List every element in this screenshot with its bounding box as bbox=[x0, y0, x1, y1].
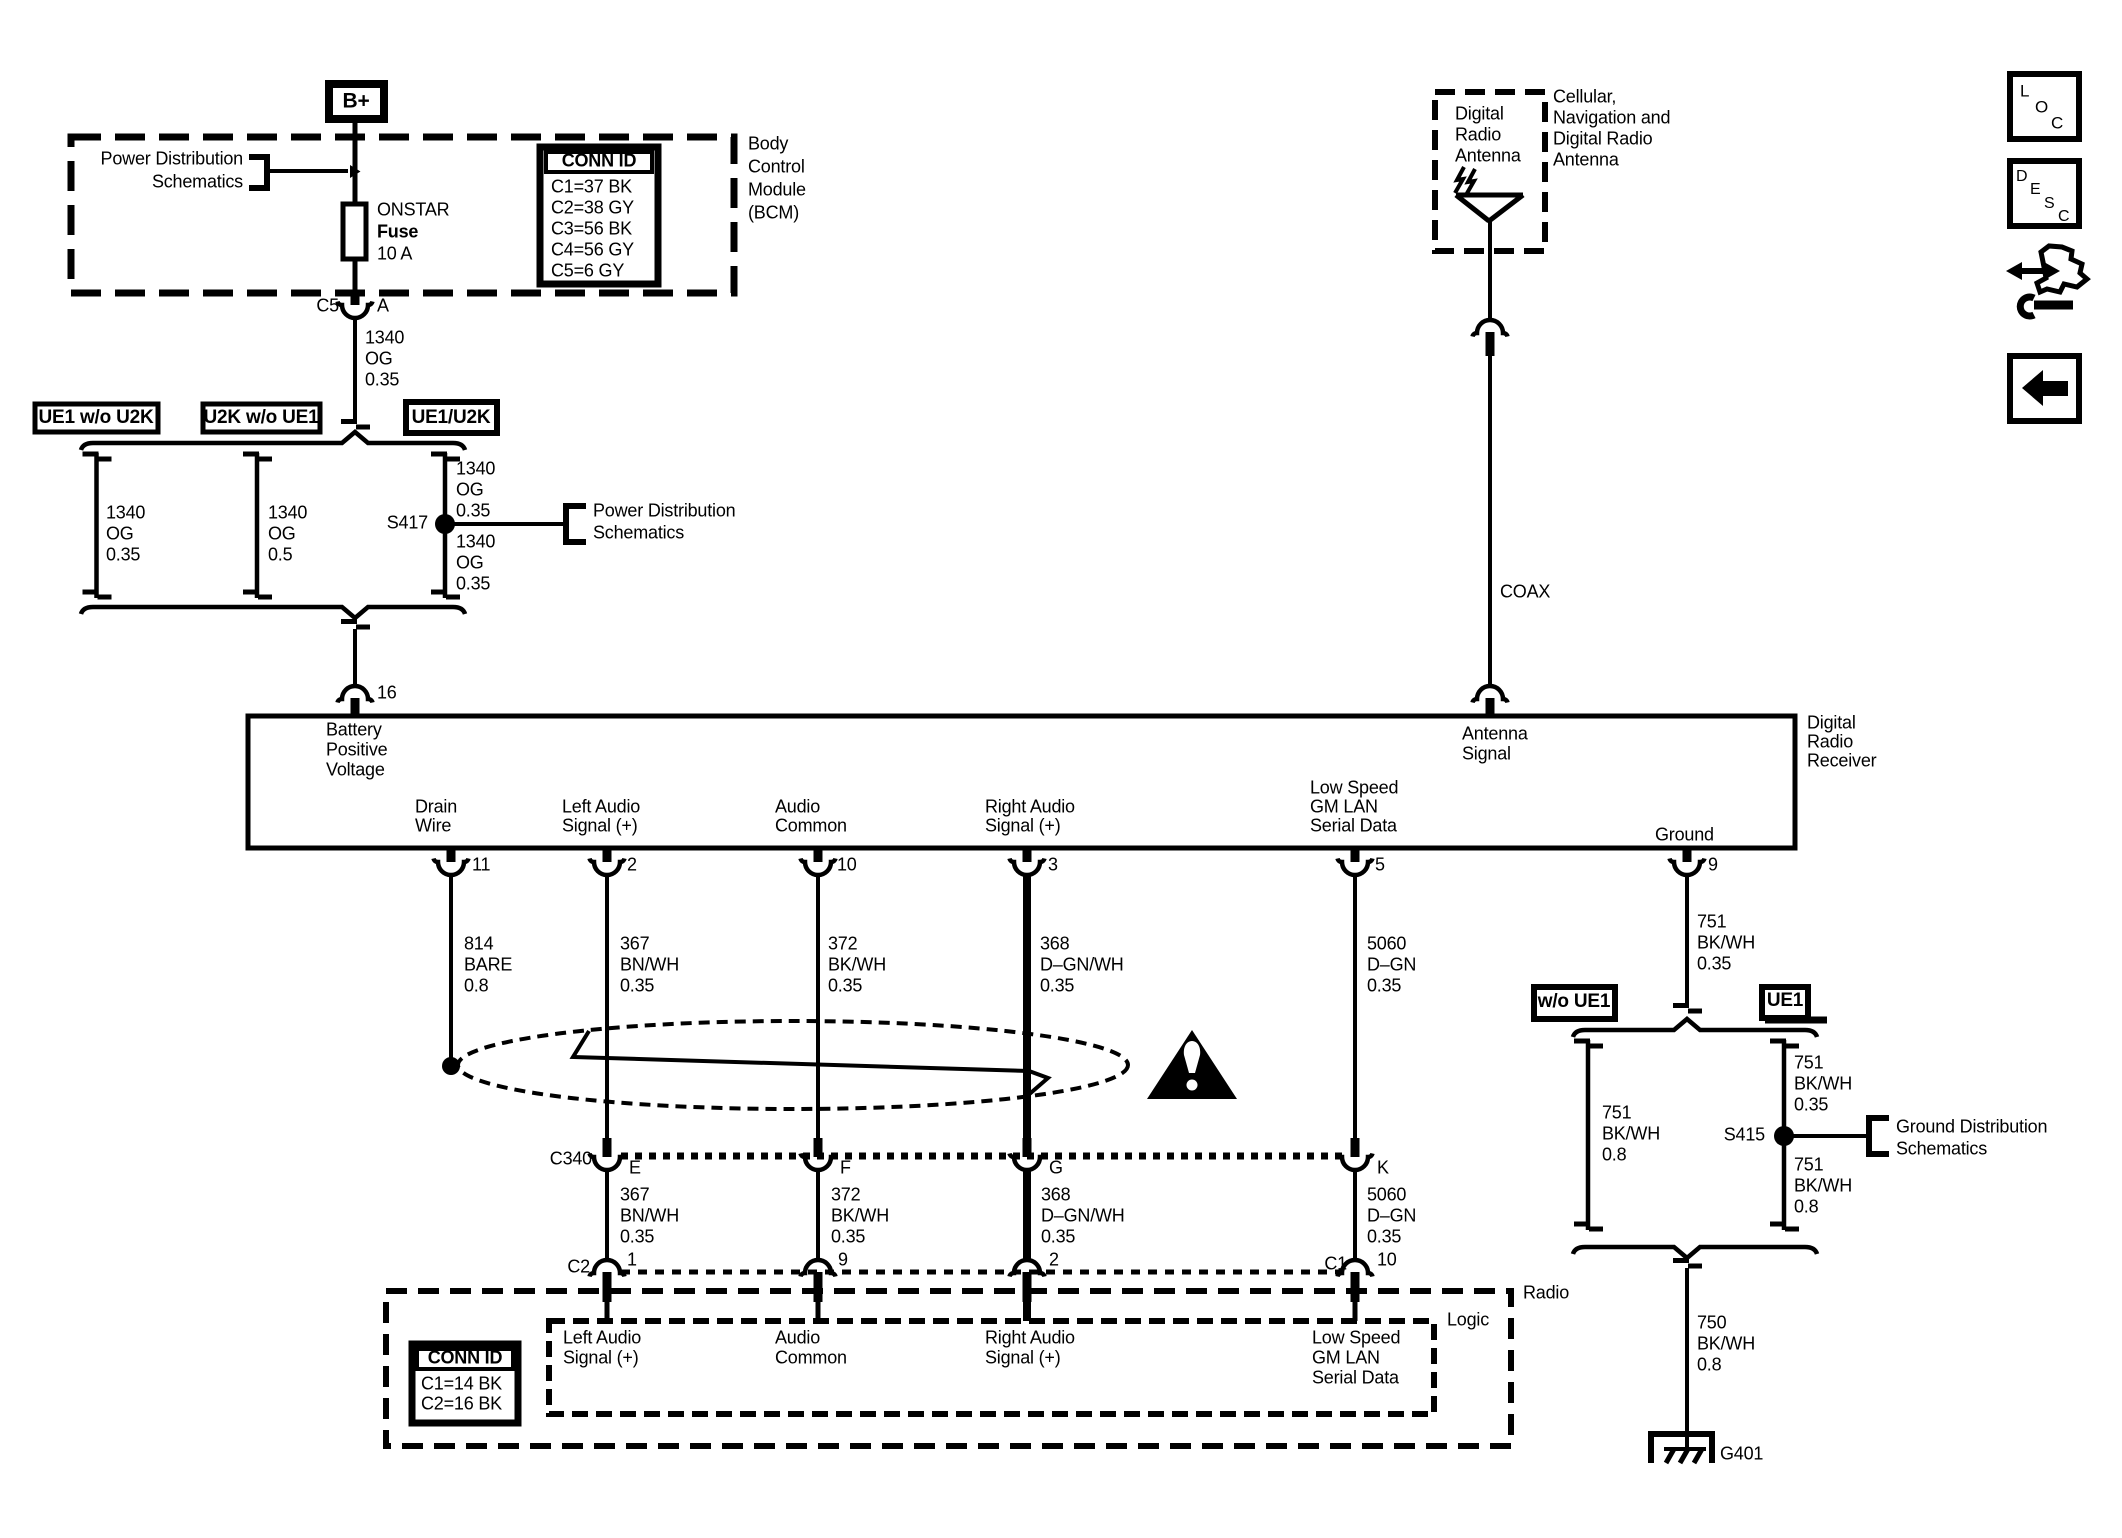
svg-text:Audio: Audio bbox=[775, 796, 820, 816]
svg-text:C2: C2 bbox=[567, 1256, 590, 1276]
svg-text:0.35: 0.35 bbox=[620, 1226, 654, 1246]
svg-text:3: 3 bbox=[1048, 854, 1058, 874]
wire break below option brace bbox=[341, 622, 370, 628]
wire drain 814 BARE bbox=[449, 875, 453, 1060]
connector row C340 dotted line bbox=[621, 1153, 1342, 1160]
wire into radio logic 2 bbox=[1023, 1302, 1031, 1321]
svg-text:D–GN: D–GN bbox=[1367, 1205, 1416, 1225]
svg-text:5060: 5060 bbox=[1367, 1184, 1406, 1204]
branch U2K w/o UE1 wire bbox=[255, 453, 260, 598]
icon back arrow bbox=[2022, 370, 2068, 406]
wire 367 BN/WH lower bbox=[605, 1170, 609, 1260]
Digital Radio Receiver box bbox=[248, 716, 1795, 848]
option box UE1/U2K bbox=[406, 402, 497, 433]
svg-text:Antenna: Antenna bbox=[1462, 723, 1529, 743]
svg-text:w/o UE1: w/o UE1 bbox=[1537, 991, 1611, 1012]
svg-text:0.35: 0.35 bbox=[1367, 975, 1401, 995]
svg-text:Serial Data: Serial Data bbox=[1312, 1367, 1400, 1387]
svg-text:Drain: Drain bbox=[415, 796, 457, 816]
antenna wave marks bbox=[1455, 167, 1475, 195]
option box UE1 bbox=[1762, 987, 1808, 1018]
pin stub radio 2 bbox=[1023, 1272, 1032, 1302]
svg-text:K: K bbox=[1377, 1157, 1389, 1177]
connector pin 10 bbox=[801, 859, 836, 876]
svg-text:16: 16 bbox=[377, 682, 397, 702]
icon vehicle with arrow and wrench bbox=[2037, 246, 2087, 292]
svg-text:D–GN/WH: D–GN/WH bbox=[1040, 954, 1124, 974]
svg-text:Signal (+): Signal (+) bbox=[985, 815, 1061, 835]
svg-text:CONN ID: CONN ID bbox=[562, 150, 637, 170]
wire 367 BN/WH upper bbox=[605, 875, 609, 1144]
connector pin 2 bbox=[590, 859, 625, 876]
splice S417 bbox=[435, 514, 455, 534]
pin stub coax bbox=[1486, 332, 1495, 356]
svg-text:OG: OG bbox=[268, 523, 296, 543]
svg-text:Battery: Battery bbox=[326, 719, 382, 739]
svg-text:Right Audio: Right Audio bbox=[985, 1327, 1075, 1347]
svg-text:Schematics: Schematics bbox=[593, 522, 684, 542]
svg-text:S: S bbox=[2044, 195, 2054, 212]
connector radio pin 9 bbox=[801, 1260, 836, 1277]
svg-text:2: 2 bbox=[1049, 1249, 1059, 1269]
svg-text:367: 367 bbox=[620, 1184, 650, 1204]
svg-text:9: 9 bbox=[1708, 854, 1718, 874]
option box UE1 w/o U2K bbox=[35, 404, 158, 432]
svg-text:10 A: 10 A bbox=[377, 243, 412, 263]
wire brace to pin 16 bbox=[353, 629, 357, 686]
svg-text:751: 751 bbox=[1794, 1154, 1824, 1174]
Logic dashed box bbox=[549, 1321, 1434, 1414]
wire break above option brace bbox=[341, 422, 370, 428]
pin stub radio 10 bbox=[1351, 1272, 1360, 1302]
connector C340 pin K bbox=[1338, 1154, 1373, 1171]
svg-text:Signal (+): Signal (+) bbox=[562, 815, 638, 835]
svg-text:1340: 1340 bbox=[106, 502, 145, 522]
wire break above ground brace bbox=[1673, 1006, 1702, 1012]
svg-text:CONN ID: CONN ID bbox=[428, 1347, 503, 1367]
svg-text:C340: C340 bbox=[550, 1148, 592, 1168]
ground option brace bottom bbox=[1573, 1247, 1817, 1258]
wire fuse to C5 bbox=[353, 259, 358, 293]
svg-text:11: 11 bbox=[472, 854, 490, 874]
svg-text:UE1/U2K: UE1/U2K bbox=[412, 407, 491, 428]
wire B+ to fuse bbox=[353, 123, 358, 204]
connector pin 5 bbox=[1338, 859, 1373, 876]
wire antenna mast bbox=[1488, 221, 1492, 319]
connector C340 pin F bbox=[801, 1154, 836, 1171]
CONN ID table (BCM) bbox=[540, 147, 658, 284]
svg-text:Radio: Radio bbox=[1455, 124, 1501, 144]
svg-text:10: 10 bbox=[837, 854, 857, 874]
option box UE1 shadow bbox=[1765, 1017, 1827, 1024]
svg-text:0.35: 0.35 bbox=[365, 369, 399, 389]
svg-text:368: 368 bbox=[1041, 1184, 1071, 1204]
svg-text:Antenna: Antenna bbox=[1553, 149, 1620, 169]
svg-text:0.35: 0.35 bbox=[1697, 953, 1731, 973]
svg-text:GM LAN: GM LAN bbox=[1310, 796, 1378, 816]
node drain wire termination dot bbox=[442, 1057, 460, 1075]
svg-text:C5=6 GY: C5=6 GY bbox=[551, 260, 624, 280]
svg-text:E: E bbox=[629, 1157, 641, 1177]
svg-text:Digital Radio: Digital Radio bbox=[1553, 128, 1653, 148]
svg-text:Control: Control bbox=[748, 156, 805, 176]
connector pin 11 bbox=[434, 859, 469, 876]
svg-text:C2=38 GY: C2=38 GY bbox=[551, 197, 634, 217]
svg-text:U2K w/o UE1: U2K w/o UE1 bbox=[204, 407, 320, 428]
pin stub 16 bbox=[351, 698, 360, 718]
svg-text:BN/WH: BN/WH bbox=[620, 954, 679, 974]
connector pin 9 bbox=[1670, 859, 1705, 876]
connector radio pin 2 bbox=[1010, 1260, 1045, 1277]
icon box LOC bbox=[2010, 74, 2079, 139]
svg-text:L: L bbox=[2020, 82, 2029, 101]
svg-text:2: 2 bbox=[627, 854, 637, 874]
wire into radio logic 9 bbox=[816, 1302, 821, 1321]
svg-text:C: C bbox=[2051, 114, 2063, 133]
branch UE1 w/o U2K wire bbox=[94, 453, 99, 598]
connector antenna signal pin bbox=[1473, 686, 1508, 703]
svg-text:0.35: 0.35 bbox=[828, 975, 862, 995]
svg-text:Power Distribution: Power Distribution bbox=[593, 500, 735, 520]
svg-text:751: 751 bbox=[1794, 1052, 1824, 1072]
pin stub C340 F bbox=[814, 1138, 823, 1157]
svg-text:Low Speed: Low Speed bbox=[1310, 777, 1398, 797]
pin stub antenna signal bbox=[1486, 698, 1495, 718]
wire S415 to ground distribution bbox=[1784, 1134, 1869, 1138]
svg-text:0.35: 0.35 bbox=[831, 1226, 865, 1246]
wire COAX bbox=[1488, 356, 1492, 686]
connector pin 16 bbox=[338, 686, 373, 703]
pin stub 10 bbox=[814, 848, 823, 862]
svg-text:0.8: 0.8 bbox=[1697, 1354, 1722, 1374]
svg-text:0.35: 0.35 bbox=[1794, 1094, 1828, 1114]
pin stub radio 9 bbox=[814, 1272, 823, 1302]
svg-text:Radio: Radio bbox=[1523, 1282, 1569, 1302]
branch ground UE1 bbox=[1782, 1040, 1787, 1230]
svg-text:Power Distribution: Power Distribution bbox=[101, 148, 243, 168]
node B+ power symbol box bbox=[329, 84, 384, 119]
svg-text:OG: OG bbox=[365, 348, 393, 368]
svg-text:Signal (+): Signal (+) bbox=[563, 1347, 639, 1367]
Digital Radio Antenna dashed box bbox=[1435, 92, 1545, 251]
Radio dashed box bbox=[386, 1291, 1511, 1446]
pin stub C5 bbox=[351, 293, 360, 305]
svg-text:1340: 1340 bbox=[268, 502, 307, 522]
svg-text:OG: OG bbox=[456, 479, 484, 499]
svg-text:BK/WH: BK/WH bbox=[828, 954, 886, 974]
wire into radio logic 1 bbox=[605, 1302, 610, 1321]
svg-text:Radio: Radio bbox=[1807, 731, 1853, 751]
svg-text:1340: 1340 bbox=[456, 458, 495, 478]
svg-text:Ground Distribution: Ground Distribution bbox=[1896, 1116, 2047, 1136]
svg-text:E: E bbox=[2030, 181, 2040, 198]
svg-text:C5: C5 bbox=[316, 295, 339, 315]
svg-text:372: 372 bbox=[828, 933, 858, 953]
wire power distribution to B+ feed bbox=[267, 169, 348, 173]
wire 750 BK/WH bbox=[1685, 1268, 1689, 1449]
svg-text:Module: Module bbox=[748, 179, 806, 199]
svg-text:Left Audio: Left Audio bbox=[563, 1327, 641, 1347]
svg-text:5: 5 bbox=[1375, 854, 1385, 874]
wire 5060 D-GN upper bbox=[1353, 875, 1357, 1144]
svg-text:UE1 w/o U2K: UE1 w/o U2K bbox=[39, 407, 154, 428]
svg-text:Low Speed: Low Speed bbox=[1312, 1327, 1400, 1347]
pin stub C340 G bbox=[1023, 1138, 1032, 1157]
svg-text:Navigation and: Navigation and bbox=[1553, 107, 1670, 127]
svg-text:GM LAN: GM LAN bbox=[1312, 1347, 1380, 1367]
svg-text:C1=14 BK: C1=14 BK bbox=[421, 1373, 502, 1393]
svg-text:Ground: Ground bbox=[1655, 824, 1714, 844]
svg-text:Digital: Digital bbox=[1807, 712, 1856, 732]
svg-text:Body: Body bbox=[748, 133, 788, 153]
wire 1340 OG bbox=[353, 318, 357, 421]
lightning bolt through shield bbox=[573, 1031, 1048, 1097]
svg-text:C1=37 BK: C1=37 BK bbox=[551, 176, 632, 196]
svg-text:A: A bbox=[377, 295, 389, 315]
svg-text:Antenna: Antenna bbox=[1455, 145, 1522, 165]
pin stub 11 bbox=[447, 848, 456, 862]
svg-text:OG: OG bbox=[106, 523, 134, 543]
svg-text:751: 751 bbox=[1602, 1102, 1632, 1122]
svg-text:G: G bbox=[1049, 1157, 1063, 1177]
branch ground w/o UE1 bbox=[1586, 1040, 1591, 1230]
connector coax inline bbox=[1473, 320, 1508, 337]
svg-text:1340: 1340 bbox=[456, 531, 495, 551]
branch UE1/U2K wire bbox=[443, 453, 448, 598]
bracket power distribution bbox=[249, 157, 267, 188]
connector radio pin 10 bbox=[1338, 1260, 1373, 1277]
svg-text:9: 9 bbox=[838, 1249, 848, 1269]
svg-text:814: 814 bbox=[464, 933, 494, 953]
icon box back arrow bbox=[2010, 356, 2079, 421]
connector C340 pin E bbox=[590, 1154, 625, 1171]
splice S415 bbox=[1774, 1126, 1794, 1146]
fuse ONSTAR 10A bbox=[343, 204, 366, 259]
svg-text:0.35: 0.35 bbox=[1041, 1226, 1075, 1246]
connector C5 terminal A bbox=[338, 302, 373, 319]
svg-text:Schematics: Schematics bbox=[1896, 1138, 1987, 1158]
svg-text:O: O bbox=[2035, 98, 2048, 117]
shield ellipse (drain wire) bbox=[458, 1021, 1128, 1109]
Body Control Module (BCM) dashed box bbox=[71, 137, 734, 293]
antenna symbol bbox=[1456, 195, 1523, 221]
svg-text:BK/WH: BK/WH bbox=[1697, 1333, 1755, 1353]
icon box DESC bbox=[2010, 161, 2079, 226]
pin stub 3 bbox=[1023, 848, 1032, 862]
pin stub 2 bbox=[603, 848, 612, 862]
option box w/o UE1 bbox=[1534, 987, 1615, 1019]
svg-text:0.35: 0.35 bbox=[456, 500, 490, 520]
svg-text:F: F bbox=[840, 1157, 851, 1177]
ground option brace top bbox=[1573, 1019, 1817, 1037]
svg-text:0.35: 0.35 bbox=[1040, 975, 1074, 995]
svg-text:Common: Common bbox=[775, 1347, 847, 1367]
svg-text:BK/WH: BK/WH bbox=[1697, 932, 1755, 952]
svg-text:BK/WH: BK/WH bbox=[1794, 1175, 1852, 1195]
svg-text:Left Audio: Left Audio bbox=[562, 796, 640, 816]
option brace bottom bbox=[81, 607, 465, 618]
svg-text:372: 372 bbox=[831, 1184, 861, 1204]
svg-text:COAX: COAX bbox=[1500, 581, 1550, 601]
svg-text:0.5: 0.5 bbox=[268, 544, 293, 564]
wire 368 D-GN/WH lower bbox=[1023, 1170, 1031, 1260]
svg-text:Receiver: Receiver bbox=[1807, 750, 1877, 770]
svg-text:C2=16 BK: C2=16 BK bbox=[421, 1393, 502, 1413]
wire 5060 D-GN lower bbox=[1353, 1170, 1357, 1260]
svg-text:BK/WH: BK/WH bbox=[1602, 1123, 1660, 1143]
svg-text:Wire: Wire bbox=[415, 815, 451, 835]
svg-text:10: 10 bbox=[1377, 1249, 1397, 1269]
svg-text:0.8: 0.8 bbox=[1602, 1144, 1627, 1164]
svg-text:Right Audio: Right Audio bbox=[985, 796, 1075, 816]
svg-text:B+: B+ bbox=[342, 90, 369, 113]
svg-text:Cellular,: Cellular, bbox=[1553, 86, 1616, 106]
svg-text:368: 368 bbox=[1040, 933, 1070, 953]
svg-text:G401: G401 bbox=[1720, 1443, 1763, 1463]
wire 372 BK/WH upper bbox=[816, 875, 820, 1144]
svg-text:Signal (+): Signal (+) bbox=[985, 1347, 1061, 1367]
svg-text:1: 1 bbox=[627, 1249, 637, 1269]
svg-text:C: C bbox=[2058, 208, 2069, 225]
svg-text:C4=56 GY: C4=56 GY bbox=[551, 239, 634, 259]
svg-text:0.8: 0.8 bbox=[464, 975, 489, 995]
connector pin 3 bbox=[1010, 859, 1045, 876]
svg-text:BK/WH: BK/WH bbox=[831, 1205, 889, 1225]
svg-text:Common: Common bbox=[775, 815, 847, 835]
svg-text:BN/WH: BN/WH bbox=[620, 1205, 679, 1225]
wire break below ground brace bbox=[1673, 1261, 1702, 1267]
svg-text:OG: OG bbox=[456, 552, 484, 572]
warning triangle bbox=[1147, 1030, 1237, 1099]
svg-text:0.35: 0.35 bbox=[106, 544, 140, 564]
svg-text:S417: S417 bbox=[387, 512, 428, 532]
svg-text:Audio: Audio bbox=[775, 1327, 820, 1347]
svg-text:5060: 5060 bbox=[1367, 933, 1406, 953]
pin stub 5 bbox=[1351, 848, 1360, 862]
pin stub C340 E bbox=[603, 1138, 612, 1157]
svg-text:Signal: Signal bbox=[1462, 743, 1511, 763]
svg-text:D–GN/WH: D–GN/WH bbox=[1041, 1205, 1125, 1225]
svg-text:Voltage: Voltage bbox=[326, 759, 385, 779]
pin stub C340 K bbox=[1351, 1138, 1360, 1157]
wire S417 to power distribution bbox=[445, 522, 566, 526]
svg-text:Serial Data: Serial Data bbox=[1310, 815, 1398, 835]
svg-text:0.8: 0.8 bbox=[1794, 1196, 1819, 1216]
wire 372 BK/WH lower bbox=[816, 1170, 820, 1260]
pin stub radio 1 bbox=[603, 1272, 612, 1302]
svg-text:S415: S415 bbox=[1724, 1124, 1765, 1144]
svg-text:Fuse: Fuse bbox=[377, 221, 418, 241]
wire 368 D-GN/WH upper bbox=[1023, 875, 1031, 1144]
svg-text:1340: 1340 bbox=[365, 327, 404, 347]
bracket power distribution schematics right bbox=[566, 506, 586, 542]
svg-text:(BCM): (BCM) bbox=[748, 202, 799, 222]
svg-text:Schematics: Schematics bbox=[152, 171, 243, 191]
svg-text:D: D bbox=[2016, 168, 2027, 185]
svg-text:ONSTAR: ONSTAR bbox=[377, 199, 450, 219]
svg-text:0.35: 0.35 bbox=[620, 975, 654, 995]
junction arrowhead bbox=[350, 165, 361, 178]
svg-text:750: 750 bbox=[1697, 1312, 1727, 1332]
pin stub 9 bbox=[1683, 848, 1692, 862]
svg-text:367: 367 bbox=[620, 933, 650, 953]
connector radio pin 1 bbox=[590, 1260, 625, 1277]
connector row C2 dotted line bbox=[621, 1270, 1342, 1275]
CONN ID table (Radio) bbox=[412, 1344, 518, 1423]
svg-text:C3=56 BK: C3=56 BK bbox=[551, 218, 632, 238]
wire into radio logic 10 bbox=[1353, 1302, 1358, 1321]
svg-text:BK/WH: BK/WH bbox=[1794, 1073, 1852, 1093]
option brace top bbox=[81, 432, 465, 450]
svg-text:BARE: BARE bbox=[464, 954, 512, 974]
ground G401 symbol bbox=[1651, 1434, 1712, 1463]
svg-text:Positive: Positive bbox=[326, 739, 388, 759]
wire 751 BK/WH from ground pin bbox=[1685, 875, 1689, 1003]
svg-text:0.35: 0.35 bbox=[456, 573, 490, 593]
svg-text:Logic: Logic bbox=[1447, 1309, 1489, 1329]
option box U2K w/o UE1 bbox=[203, 404, 320, 432]
svg-text:Digital: Digital bbox=[1455, 103, 1504, 123]
bracket ground distribution schematics bbox=[1869, 1118, 1889, 1154]
connector C340 pin G bbox=[1010, 1154, 1045, 1171]
svg-text:0.35: 0.35 bbox=[1367, 1226, 1401, 1246]
svg-text:UE1: UE1 bbox=[1767, 990, 1804, 1011]
svg-text:D–GN: D–GN bbox=[1367, 954, 1416, 974]
svg-text:751: 751 bbox=[1697, 911, 1727, 931]
